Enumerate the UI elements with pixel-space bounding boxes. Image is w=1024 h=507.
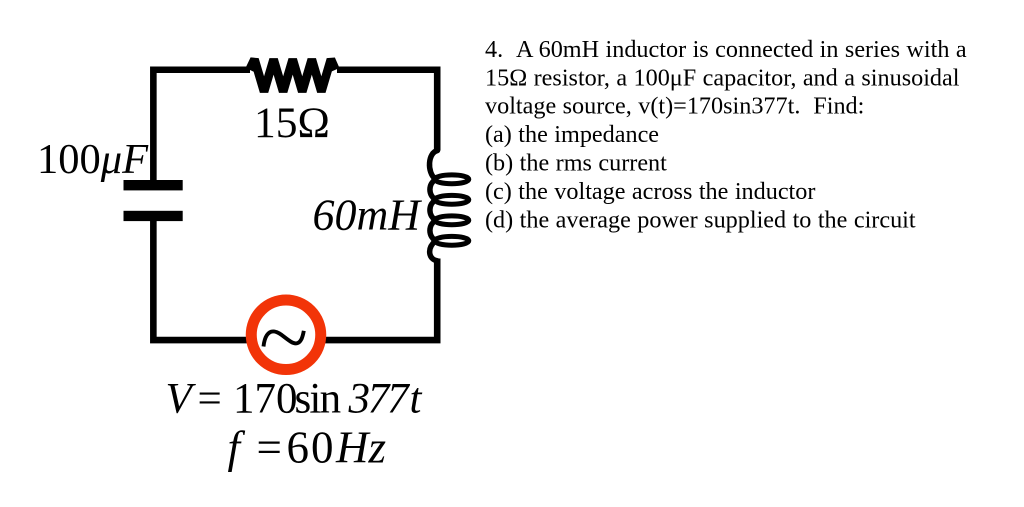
- inductor L loop 1: [435, 175, 469, 184]
- inductor L bump 3: [430, 220, 436, 241]
- svg-text:(a) the impedance: (a) the impedance: [485, 121, 659, 148]
- capacitor C bottom plate: [124, 211, 183, 221]
- inductor L bump 2: [430, 200, 436, 221]
- svg-text:100μF: 100μF: [37, 136, 149, 183]
- wire bottom-left + left-lower segment: [153, 221, 248, 340]
- svg-text:f=60Hz: f=60Hz: [228, 423, 387, 473]
- svg-text:(b) the rms current: (b) the rms current: [485, 150, 667, 177]
- svg-text:15Ω resistor, a 100μF capacito: 15Ω resistor, a 100μF capacitor, and a s…: [485, 64, 960, 91]
- inductor L bottom connector: [430, 241, 438, 261]
- inductor L loop 4: [435, 236, 469, 245]
- wire top-right + right-upper segment: [337, 70, 437, 151]
- resistor R zigzag: [250, 59, 336, 91]
- svg-text:V=170sin377t: V=170sin377t: [166, 376, 423, 423]
- inductor L top connector: [430, 151, 438, 180]
- svg-text:(c) the voltage across the ind: (c) the voltage across the inductor: [485, 178, 815, 205]
- svg-text:voltage source, v(t)=170sin377: voltage source, v(t)=170sin377t. Find:: [485, 93, 864, 120]
- svg-text:15Ω: 15Ω: [254, 99, 330, 147]
- capacitor C top plate: [124, 180, 183, 190]
- inductor L loop 2: [435, 195, 469, 204]
- voltage source sine tilde: [264, 331, 304, 347]
- svg-text:4. A 60mH inductor is connect: 4. A 60mH inductor is connected in serie…: [485, 36, 967, 63]
- voltage source ring: [251, 300, 321, 370]
- svg-text:60mH: 60mH: [313, 191, 423, 240]
- wire left + top-left segment: [153, 70, 250, 181]
- inductor L bump 1: [430, 179, 436, 200]
- wire right-lower + bottom-right segment: [323, 259, 438, 341]
- inductor L loop 3: [435, 216, 469, 225]
- svg-text:(d) the average power supplied: (d) the average power supplied to the ci…: [485, 206, 916, 233]
